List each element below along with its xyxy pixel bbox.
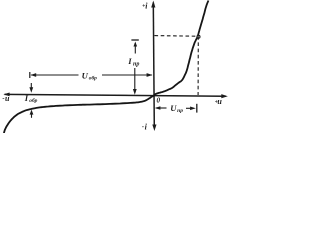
svg-text:обр: обр [29, 97, 37, 104]
Uobr dimension left arrowhead [30, 73, 36, 77]
Upr dimension left arrow (tip at y-axis) [156, 107, 167, 109]
dashed vertical line at Upr [197, 36, 199, 95]
Ipr up arrow [134, 43, 136, 54]
Iobr down arrow to axis [30, 83, 32, 90]
reverse branch curve [4, 96, 154, 134]
svg-text:U: U [82, 70, 89, 80]
Ipr level tick [131, 39, 138, 41]
svg-text:обр: обр [89, 74, 97, 81]
Uobr dimension left tick [29, 72, 31, 78]
svg-text:I: I [24, 93, 29, 103]
Ipr down arrow to axis [134, 68, 136, 92]
svg-text:u: u [5, 94, 10, 103]
Iobr up arrow below text [31, 114, 33, 118]
Uobr dimension line right segment [102, 74, 152, 76]
Upr dimension right arrow (tip at tick) [186, 107, 194, 109]
forward branch curve [153, 1, 208, 96]
horizontal axis u [5, 94, 227, 96]
Uobr dimension right arrowhead at y-axis [147, 73, 153, 77]
horizontal axis left arrowhead [3, 93, 9, 97]
vertical axis top arrowhead [151, 1, 155, 8]
svg-text:0: 0 [157, 97, 161, 105]
svg-text:I: I [127, 56, 132, 66]
vertical axis i [153, 3, 154, 129]
vertical axis bottom arrowhead [152, 125, 156, 132]
svg-text:пр: пр [177, 108, 183, 114]
Uobr dimension line left segment [31, 74, 79, 76]
svg-text:u: u [217, 97, 222, 106]
operating point circle [197, 35, 200, 38]
dashed horizontal line at Ipr level [155, 35, 198, 38]
Upr dimension right tick [196, 104, 198, 113]
svg-text:пр: пр [133, 61, 139, 67]
horizontal axis right arrowhead [221, 94, 228, 98]
